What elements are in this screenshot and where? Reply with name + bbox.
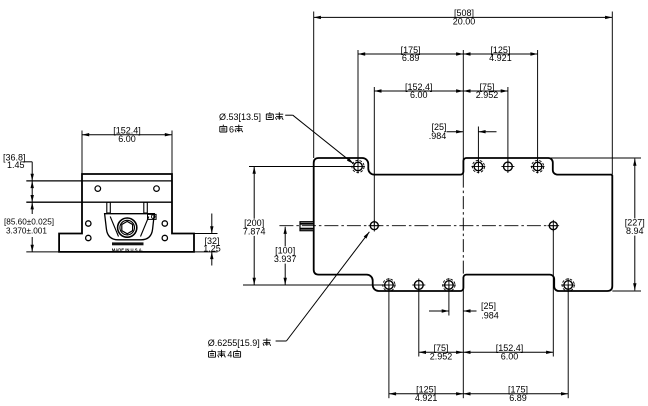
- svg-text:1.45: 1.45: [7, 160, 25, 170]
- ext line tab top to right dim: [549, 157, 642, 159]
- dim [227] 8.94 right: [634, 159, 636, 291]
- body hole right upper: [162, 221, 167, 226]
- locating hole mid-left: [370, 222, 378, 230]
- ext line hole T3: [507, 87, 509, 167]
- leader locating holes note: [276, 340, 287, 342]
- front view outline: [59, 174, 194, 252]
- svg-text:6.00: 6.00: [410, 90, 428, 100]
- svg-text:2.952: 2.952: [430, 352, 453, 362]
- ext line jaw face lower: [462, 277, 464, 398]
- svg-text:7.874: 7.874: [243, 226, 266, 236]
- ext line hole B3: [448, 285, 450, 316]
- svg-text:3.937: 3.937: [274, 254, 297, 264]
- body hole left lower: [86, 235, 91, 240]
- jaw key right: [144, 202, 148, 213]
- svg-text:3.370±.001: 3.370±.001: [6, 227, 47, 236]
- bed line: [26, 201, 172, 203]
- ext line bottom hole row to left dims: [243, 284, 389, 286]
- boss inner v-right: [141, 217, 149, 237]
- dim [125] 4.921 top: [463, 53, 537, 55]
- ext line tab bottom to right dim: [612, 290, 641, 292]
- svg-text:.984: .984: [481, 310, 499, 320]
- ext line mid hole left: [373, 87, 375, 226]
- ext line hole B2: [418, 285, 420, 357]
- ext line front width left: [81, 131, 83, 175]
- body hole right lower: [162, 235, 167, 240]
- ext line dim508 right: [611, 12, 613, 175]
- mounting hole top-3: [533, 162, 542, 171]
- ext line front width right: [171, 131, 173, 175]
- svg-text:4.921: 4.921: [415, 393, 438, 403]
- jaw screw hole left: [95, 186, 101, 192]
- ext line jaw face upper: [462, 50, 464, 175]
- dim [508] 20.00 overall width: [314, 16, 613, 18]
- svg-text:MADE IN U.S.A.: MADE IN U.S.A.: [112, 248, 143, 253]
- svg-text:Ø.6255[15.9]: Ø.6255[15.9]: [208, 338, 260, 348]
- screw hex socket: [122, 221, 133, 233]
- dim [125] 4.921 bottom: [389, 393, 463, 395]
- mounting hole top-1: [354, 162, 363, 171]
- svg-text:[85.60±0.025]: [85.60±0.025]: [4, 218, 54, 227]
- leader mounting holes note: [285, 114, 293, 116]
- dim [152.4] 6.00 bottom: [463, 351, 553, 353]
- note locating holes text line2: [209, 350, 216, 357]
- vertical jaw centerline: [462, 175, 464, 277]
- ext line top hole row to left dims: [249, 166, 358, 168]
- svg-text:1.25: 1.25: [203, 244, 221, 254]
- ext line hole T2: [477, 127, 479, 167]
- ext line hole B1: [388, 285, 390, 398]
- dim [25] .984 top: [447, 131, 464, 133]
- svg-text:6.00: 6.00: [118, 134, 136, 144]
- svg-text:8.94: 8.94: [626, 226, 644, 236]
- screw boss outline: [105, 214, 155, 240]
- mounting hole bottom-1: [385, 281, 394, 290]
- locating hole bottom: [414, 281, 423, 290]
- svg-text:.984: .984: [429, 131, 447, 141]
- svg-text:Ø.53[13.5]: Ø.53[13.5]: [219, 112, 261, 122]
- locating hole top: [504, 162, 513, 171]
- svg-text:4.921: 4.921: [489, 53, 512, 63]
- ext line mid hole right: [552, 226, 554, 357]
- horizontal centerline: [279, 225, 557, 227]
- dim [200] 7.874 left: [253, 167, 255, 286]
- dim [32] 1.25 base height: [195, 233, 218, 235]
- plate outline (plan view): [314, 158, 613, 291]
- svg-text:20.00: 20.00: [453, 17, 476, 27]
- dim [75] 2.952 bottom: [419, 351, 464, 353]
- mounting hole bottom-3: [564, 281, 573, 290]
- svg-text:6.89: 6.89: [402, 53, 420, 63]
- ext line hole B4: [567, 285, 569, 398]
- dim [25] .984 bottom: [429, 310, 449, 312]
- body hole left upper: [86, 221, 91, 226]
- screw inner circle: [120, 220, 135, 235]
- ext line base bottom left: [26, 251, 59, 253]
- note mounting holes text line2: [220, 125, 227, 132]
- jaw screw hole right: [154, 186, 160, 192]
- dim [75] 2.952 top: [463, 90, 508, 92]
- ext line hole T4: [537, 50, 539, 167]
- dim [85.60] 3.370 body height: [31, 202, 33, 214]
- ext line dim508 left: [313, 12, 315, 159]
- mounting hole top-2: [474, 162, 483, 171]
- mounting hole bottom-2: [445, 281, 454, 290]
- jaw key left: [107, 202, 111, 213]
- svg-text:6.00: 6.00: [501, 352, 519, 362]
- svg-text:6.89: 6.89: [509, 393, 527, 403]
- screw outer circle: [118, 218, 137, 237]
- svg-text:2.952: 2.952: [476, 90, 499, 100]
- left plug tab on plate: [300, 222, 314, 231]
- jaw rail line: [26, 180, 172, 182]
- ext line hole T1: [357, 50, 359, 167]
- boss corner detail: [148, 214, 157, 219]
- svg-text:6: 6: [229, 124, 234, 134]
- locating hole mid-right: [549, 222, 557, 230]
- dim [100] 3.937 left: [284, 227, 286, 285]
- dim [175] 6.89 top: [358, 53, 463, 55]
- svg-text:4: 4: [227, 350, 232, 360]
- dim [152.4] 6.00 front: [82, 134, 172, 136]
- dim [175] 6.89 bottom: [463, 393, 568, 395]
- dim [152.4] 6.00 top: [374, 90, 463, 92]
- logo line1: [112, 242, 144, 245]
- boss inner v-left: [110, 217, 118, 237]
